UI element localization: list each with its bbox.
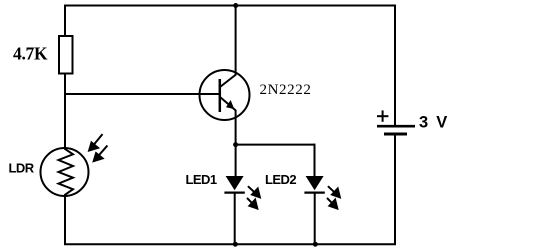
svg-text:V: V xyxy=(436,113,447,131)
svg-text:3: 3 xyxy=(419,113,428,131)
svg-text:LED1: LED1 xyxy=(186,172,217,187)
svg-text:LED2: LED2 xyxy=(265,172,296,187)
svg-text:4.7K: 4.7K xyxy=(13,43,48,63)
svg-text:LDR: LDR xyxy=(9,161,35,176)
svg-text:2N2222: 2N2222 xyxy=(260,82,312,98)
